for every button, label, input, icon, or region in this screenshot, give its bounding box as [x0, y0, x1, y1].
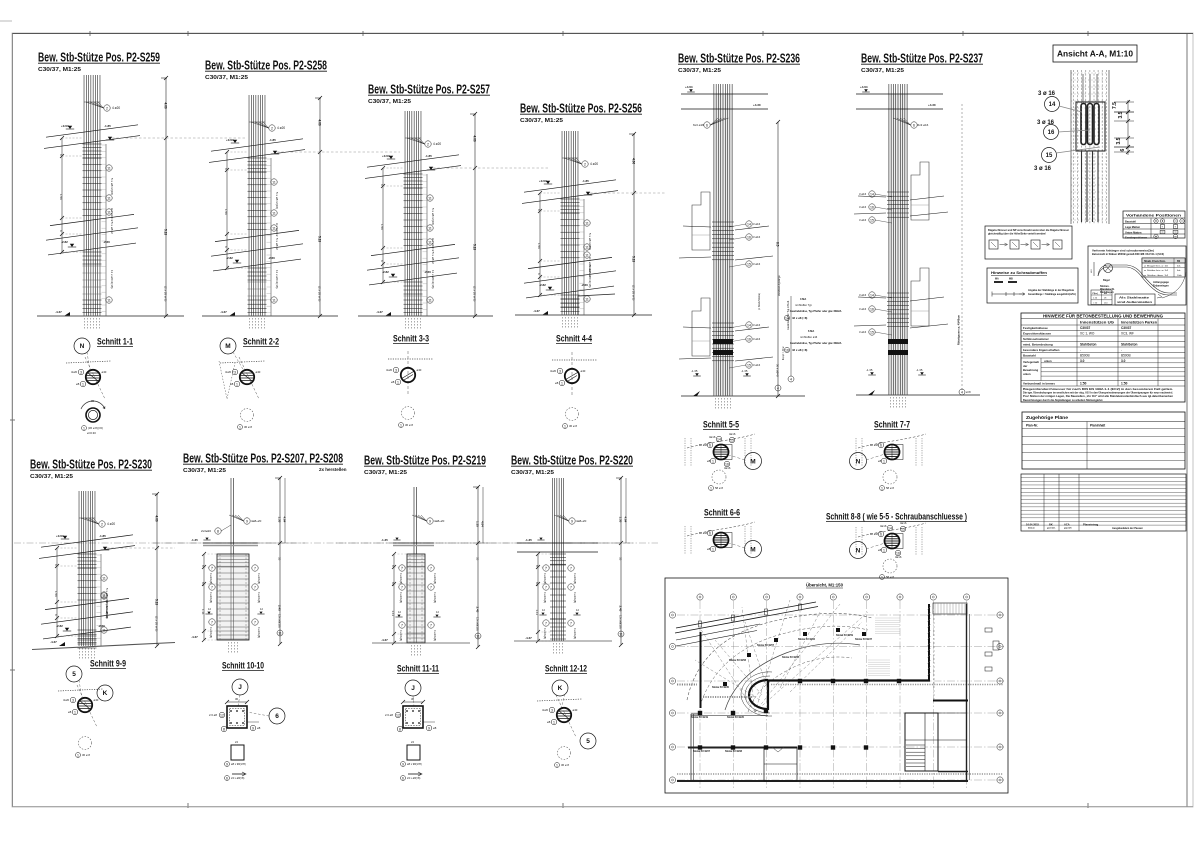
- svg-text:15: 15: [747, 262, 751, 266]
- column cross-section: [714, 533, 729, 548]
- svg-text:16: 16: [870, 205, 874, 209]
- svg-text:4 ø20: 4 ø20: [433, 142, 441, 146]
- svg-text:Stütze P2-S220: Stütze P2-S220: [727, 716, 745, 719]
- right dimension line: [474, 114, 476, 316]
- stirrup ties: [83, 265, 102, 267]
- svg-text:1: 1: [553, 720, 555, 724]
- svg-text:36 ø 8: 36 ø 8: [244, 425, 252, 429]
- left dimension chain: [539, 193, 541, 295]
- svg-text:Bew. Stb-Stütze Pos. P2-S258: Bew. Stb-Stütze Pos. P2-S258: [205, 58, 327, 73]
- rebar dashed ends: [249, 318, 251, 330]
- svg-text:15: 15: [901, 527, 905, 531]
- stirrup ties: [78, 629, 97, 631]
- svg-text:1.35: 1.35: [278, 517, 282, 523]
- rebar cluster: [713, 84, 715, 396]
- svg-text:Erdanwingen: Erdanwingen: [1153, 285, 1169, 288]
- wall dashed verticals: [684, 438, 686, 466]
- svg-text:8.1: 8.1: [535, 582, 539, 587]
- svg-text:Schnitt 2-2: Schnitt 2-2: [243, 337, 279, 348]
- svg-text:Bew. Stb-Stütze Pos. P2-S230: Bew. Stb-Stütze Pos. P2-S230: [30, 457, 152, 472]
- svg-text:3: 3: [234, 370, 236, 374]
- svg-text:4 ø10x(8): 4 ø10x(8): [399, 630, 403, 641]
- svg-text:15: 15: [747, 363, 751, 367]
- top edge columns ticks: [699, 621, 702, 627]
- svg-text:3ø16: 3ø16: [709, 435, 716, 439]
- bar label fan: [911, 122, 917, 128]
- svg-text:Bew. Stb-Stütze Pos. P2-S256: Bew. Stb-Stütze Pos. P2-S256: [520, 101, 642, 116]
- svg-text:4ø8+20: 4ø8+20: [434, 519, 445, 523]
- svg-text:9: 9: [402, 762, 404, 766]
- svg-text:1:50: 1:50: [1121, 381, 1128, 385]
- 5 bubble for 12-12: [580, 733, 596, 749]
- svg-text:B500B: B500B: [1080, 354, 1090, 358]
- svg-text:16.04.2015: 16.04.2015: [1026, 522, 1040, 526]
- svg-text:11: 11: [585, 297, 589, 301]
- stirrup ties: [83, 299, 102, 301]
- svg-text:1: 1: [564, 424, 566, 428]
- section Schnitt 7-7: [850, 420, 927, 491]
- svg-text:3ø16: 3ø16: [729, 432, 736, 436]
- svg-text:5 x ø8=2: 5 x ø8=2: [275, 238, 279, 250]
- section letter bubble: [850, 453, 867, 470]
- Ansicht A-A title box: [1053, 45, 1137, 62]
- svg-text:36 ø 8: 36 ø 8: [561, 763, 569, 767]
- bar labels: [569, 518, 575, 524]
- section letter bubble: [220, 338, 236, 354]
- svg-text:-1.35: -1.35: [191, 538, 198, 542]
- grid bubbles right: [997, 612, 1003, 618]
- svg-text:8: 8: [217, 529, 219, 533]
- stirrup ties: [78, 567, 97, 569]
- svg-text:4 ø10x(8): 4 ø10x(8): [433, 630, 437, 641]
- svg-text:ø8: ø8: [878, 548, 882, 552]
- lap ring detail (dashed): [566, 408, 579, 421]
- corner trim marks: [0, 20, 12, 22]
- svg-text:3ø16: 3ø16: [724, 466, 731, 470]
- svg-text:11: 11: [619, 632, 623, 636]
- svg-text:14: 14: [870, 192, 874, 196]
- svg-text:mind. Betondeckung: mind. Betondeckung: [1023, 343, 1053, 347]
- svg-text:Stütze P2-S256: Stütze P2-S256: [798, 638, 816, 641]
- svg-text:(36 ø 8)(=6): (36 ø 8)(=6): [88, 426, 103, 430]
- stirrup ties: [408, 566, 425, 568]
- right dimension line: [319, 98, 321, 316]
- svg-text:7: 7: [254, 585, 256, 589]
- svg-text:MA: MA: [995, 278, 999, 281]
- S236 zone2 comb: [790, 296, 792, 376]
- svg-text:4 ø10x(8): 4 ø10x(8): [257, 627, 261, 638]
- upper bars: [413, 487, 415, 554]
- svg-text:-1.35: -1.35: [691, 369, 698, 373]
- svg-text:-4.37: -4.37: [376, 310, 383, 314]
- svg-text:6x ø16: 6x ø16: [699, 443, 708, 447]
- svg-text:35: 35: [278, 557, 282, 561]
- section Schnitt 6-6: [685, 508, 762, 558]
- section cut axis: [388, 358, 433, 360]
- svg-text:Pl(m): Pl(m): [1093, 293, 1099, 295]
- svg-text:ø40: ø40: [102, 370, 107, 374]
- left dimension chain: [226, 152, 228, 268]
- svg-text:2: 2: [101, 522, 103, 526]
- bottom frame line: [12, 806, 1193, 808]
- left dimension chain: [382, 168, 384, 282]
- svg-text:42 x ø8 (=8): 42 x ø8 (=8): [792, 316, 807, 320]
- svg-text:12x ø8(18): 12x ø8(18): [476, 617, 480, 631]
- svg-text:-1.85: -1.85: [104, 124, 111, 128]
- svg-text:3: 3: [551, 708, 553, 712]
- svg-text:+4.30: +4.30: [753, 103, 761, 107]
- ground line: [32, 643, 175, 650]
- svg-text:6x ø16: 6x ø16: [870, 443, 879, 447]
- svg-text:3 ø16: 3 ø16: [753, 337, 761, 341]
- svg-text:16: 16: [870, 307, 874, 311]
- svg-text:C30/37, M1:25: C30/37, M1:25: [520, 118, 563, 124]
- svg-text:4: 4: [790, 377, 792, 381]
- svg-text:Innenstützen UG: Innenstützen UG: [1080, 321, 1114, 325]
- svg-text:8: 8: [223, 727, 225, 731]
- svg-text:-2.82: -2.82: [382, 270, 389, 274]
- svg-text:C30/37, M1:25: C30/37, M1:25: [678, 68, 721, 74]
- slab edge line: [524, 271, 616, 283]
- ramp curved wall (thick): [749, 680, 768, 709]
- svg-text:3.5: 3.5: [1118, 111, 1124, 118]
- column cross-section: [78, 698, 92, 712]
- svg-text:Gewindehülse, Typ Pfeifer oder: Gewindehülse, Typ Pfeifer oder glw. DIBt…: [790, 309, 842, 313]
- svg-text:2.45: 2.45: [476, 607, 480, 613]
- svg-text:3: 3: [72, 698, 74, 702]
- svg-text:9: 9: [571, 519, 573, 523]
- svg-text:Expositionsklassen: Expositionsklassen: [1023, 332, 1051, 336]
- svg-text:Baustahl: Baustahl: [1125, 220, 1136, 224]
- svg-text:N: N: [856, 458, 861, 465]
- slab edge line: [50, 214, 134, 225]
- stirrup ties: [408, 633, 425, 635]
- svg-text:7: 7: [254, 620, 256, 624]
- svg-text:36 ø 8: 36 ø 8: [82, 753, 90, 757]
- side position bubbles: [543, 565, 549, 571]
- svg-text:5.19: 5.19: [155, 599, 159, 605]
- svg-text:Stütze P2-S230: Stütze P2-S230: [712, 686, 730, 689]
- svg-text:unten: unten: [1023, 372, 1031, 376]
- section cut axis: [58, 689, 103, 691]
- column body: [407, 554, 425, 643]
- svg-text:4 ø10x(8): 4 ø10x(8): [573, 592, 577, 603]
- column elevation P2-S236: [678, 51, 805, 411]
- tie spacing comb: [270, 158, 272, 316]
- svg-text:Bezeichnungen durch die Abplat: Bezeichnungen durch die Abplattungen zu …: [1023, 399, 1103, 402]
- fold marks bottom: [187, 803, 189, 808]
- slab edge line: [369, 273, 457, 285]
- K bubble for 9-9: [97, 685, 113, 701]
- svg-text:N: N: [80, 343, 85, 350]
- svg-text:Schnitt 8-8 ( wie 5-5 - Schrau: Schnitt 8-8 ( wie 5-5 - Schraubanschlues…: [826, 512, 967, 523]
- svg-text:ø8 x 98(178): ø8 x 98(178): [231, 762, 246, 766]
- svg-text:4.66: 4.66: [164, 103, 168, 109]
- slab edge line: [48, 243, 136, 255]
- column elevation P2-S207/S208: [153, 451, 347, 655]
- svg-text:4 ø10x(8): 4 ø10x(8): [433, 573, 437, 584]
- svg-text:4.66: 4.66: [473, 136, 477, 142]
- svg-text:11: 11: [102, 628, 106, 632]
- svg-text:1: 1: [556, 763, 558, 767]
- svg-text:3 ø16: 3 ø16: [859, 205, 867, 209]
- wall dashed verticals: [855, 438, 857, 466]
- stirrup ties: [404, 281, 423, 283]
- svg-text:Bügel: Bügel: [1103, 279, 1110, 282]
- table: Zugehoerige Plaene: [1022, 412, 1185, 469]
- svg-text:1: 1: [236, 382, 238, 386]
- svg-text:3 ø 16: 3 ø 16: [1037, 120, 1055, 126]
- mid level triangles: [397, 615, 400, 617]
- svg-text:12: 12: [220, 713, 224, 717]
- stirrup ties: [561, 212, 580, 214]
- svg-text:3ø16: 3ø16: [895, 555, 902, 559]
- svg-text:6: 6: [913, 123, 915, 127]
- svg-text:gleichmäßig über die Höhe/Seit: gleichmäßig über die Höhe/Seite verteilt…: [988, 233, 1046, 236]
- svg-text:4x20: 4x20: [550, 369, 557, 373]
- svg-text:3 ø16: 3 ø16: [859, 293, 867, 297]
- svg-text:11: 11: [585, 253, 589, 257]
- diagonal edge (north): [676, 602, 816, 628]
- svg-text:-: -: [1121, 348, 1122, 352]
- slab edge line: [211, 139, 303, 151]
- svg-text:HINWEISE FÜR BETONBESTELLUNG U: HINWEISE FÜR BETONBESTELLUNG UND BEWEHRU…: [1043, 314, 1163, 319]
- svg-text:11: 11: [107, 196, 111, 200]
- svg-text:Verankerungslänge: Verankerungslänge: [778, 275, 781, 296]
- svg-text:11: 11: [102, 576, 106, 580]
- note box: Buegelschloesser: [985, 226, 1072, 259]
- svg-text:1.56: 1.56: [537, 243, 541, 249]
- svg-text:1: 1: [712, 459, 714, 463]
- svg-text:1: 1: [561, 381, 563, 385]
- svg-text:ø40: ø40: [581, 369, 586, 373]
- stirrup ties: [218, 566, 249, 568]
- svg-text:7: 7: [570, 585, 572, 589]
- slab edge line: [526, 286, 614, 298]
- svg-text:ø40: ø40: [573, 708, 578, 712]
- svg-text:11: 11: [107, 166, 111, 170]
- svg-text:-1.85: -1.85: [99, 534, 106, 538]
- rebar dashed ends: [890, 397, 892, 409]
- column cross-section: [714, 445, 729, 460]
- svg-text:-4.37: -4.37: [533, 309, 540, 313]
- svg-text:-2.82: -2.82: [226, 256, 233, 260]
- svg-text:Schnitt 10-10: Schnitt 10-10: [222, 661, 264, 672]
- bottom boundary wall: [677, 780, 968, 782]
- svg-text:5 x ø8=2(18): 5 x ø8=2(18): [431, 208, 435, 225]
- column elevation P2-S237: [854, 51, 983, 410]
- svg-text:Schnitt 1-1: Schnitt 1-1: [97, 337, 134, 348]
- svg-text:3 MA: 3 MA: [800, 297, 806, 301]
- svg-text:Stütze P2-S237: Stütze P2-S237: [855, 638, 873, 641]
- section Schnitt 8-8: [826, 512, 967, 580]
- step profile: [692, 298, 710, 356]
- lap ring detail (dashed): [79, 737, 92, 750]
- svg-text:4 ø10x(8): 4 ø10x(8): [209, 573, 213, 584]
- svg-text:+0.64: +0.64: [226, 138, 234, 142]
- column cross-section: [240, 370, 254, 384]
- svg-text:6: 6: [275, 713, 279, 720]
- svg-text:ø8: ø8: [878, 459, 882, 463]
- column elevation P2-S256: [515, 101, 665, 330]
- svg-text:Bew. Stb-Stütze Pos. P2-S219: Bew. Stb-Stütze Pos. P2-S219: [364, 453, 486, 468]
- svg-text:36: 36: [91, 399, 95, 403]
- svg-text:1.56: 1.56: [380, 224, 384, 230]
- svg-text:-2.60: -2.60: [103, 240, 110, 244]
- svg-text:+0.64: +0.64: [539, 179, 547, 183]
- svg-text:12: 12: [396, 713, 400, 717]
- lap circle below: [712, 470, 726, 484]
- rebar dashed ends: [405, 318, 407, 330]
- lap circle below: [883, 470, 897, 484]
- svg-text:4 ø20: 4 ø20: [590, 162, 598, 166]
- rebar cluster: [248, 95, 250, 316]
- svg-text:1: 1: [74, 710, 76, 714]
- svg-text:6: 6: [709, 531, 711, 535]
- svg-text:B500B: B500B: [1121, 354, 1131, 358]
- svg-text:3.0: 3.0: [1121, 359, 1126, 363]
- svg-text:(2 x 28 ø 8): (2 x 28 ø 8): [155, 616, 159, 631]
- column square section: [403, 706, 423, 728]
- svg-text:Schnitt 3-3: Schnitt 3-3: [393, 334, 429, 345]
- svg-text:11: 11: [107, 210, 111, 214]
- concrete face tint: [889, 94, 907, 395]
- svg-text:4 ø10x(8): 4 ø10x(8): [257, 592, 261, 603]
- svg-text:7: 7: [401, 566, 403, 570]
- svg-text:6: 6: [880, 443, 882, 447]
- svg-text:1.56: 1.56: [59, 194, 63, 200]
- svg-text:XC3, WF: XC3, WF: [1121, 332, 1134, 336]
- overview plan frame: [665, 578, 1008, 793]
- svg-text:11 x ø8=2(18): 11 x ø8=2(18): [431, 270, 435, 289]
- svg-text:3 ø 16: 3 ø 16: [1038, 91, 1056, 97]
- rebar dashed ends: [715, 398, 717, 410]
- svg-text:11: 11: [585, 221, 589, 225]
- svg-text:7: 7: [570, 566, 572, 570]
- svg-text:Betonstahl in Stäben B500B gem: Betonstahl in Stäben B500B gemäß DIN 488…: [1092, 252, 1164, 256]
- svg-text:ø8: ø8: [257, 726, 261, 730]
- svg-text:2.45: 2.45: [619, 606, 623, 612]
- svg-text:4 ø10x(8): 4 ø10x(8): [573, 628, 577, 639]
- svg-text:36 ø 8: 36 ø 8: [569, 424, 577, 428]
- svg-text:mit Muffen Typ: mit Muffen Typ: [795, 303, 812, 307]
- svg-text:BK: BK: [1049, 522, 1053, 526]
- lower block top edge: [691, 715, 768, 717]
- svg-text:ø=0.30: ø=0.30: [87, 431, 96, 435]
- svg-text:6: 6: [880, 532, 882, 536]
- svg-text:3 ø 16: 3 ø 16: [1034, 166, 1052, 172]
- svg-text:35: 35: [619, 557, 623, 561]
- svg-text:1: 1: [881, 575, 883, 579]
- top bar position label: [582, 161, 588, 167]
- step profile: [692, 192, 710, 250]
- section cut axis: [552, 359, 597, 361]
- svg-text:11 x ø8=2(18): 11 x ø8=2(18): [110, 270, 114, 289]
- svg-text:mit Muffen ø16: mit Muffen ø16: [800, 335, 818, 339]
- svg-text:Bew. Stb-Stütze Pos. P2-S257: Bew. Stb-Stütze Pos. P2-S257: [368, 82, 490, 97]
- svg-text:7.5: 7.5: [1112, 102, 1118, 109]
- top frame line: [12, 33, 1193, 35]
- axis dashed level line: [478, 542, 630, 544]
- section letter bubble: [74, 338, 90, 354]
- svg-text:1: 1: [397, 380, 399, 384]
- stirrup ties: [404, 173, 423, 175]
- top bar position label: [425, 141, 431, 147]
- rebar dashed ends: [562, 317, 564, 329]
- svg-text:11: 11: [428, 240, 432, 244]
- step profile: [911, 268, 929, 326]
- muffe symbols: [994, 281, 1003, 283]
- top slab lines: [203, 542, 258, 544]
- right inner frame line: [1186, 34, 1188, 808]
- svg-text:Pos! Stützen der nötigen Lagen: Pos! Stützen der nötigen Lagen, Die Baus…: [1023, 395, 1174, 398]
- svg-text:9: 9: [252, 726, 254, 730]
- svg-text:24 x ø8(=8): 24 x ø8(=8): [231, 776, 244, 780]
- svg-text:ø8: ø8: [391, 380, 395, 384]
- radial dashed lines: [742, 607, 755, 712]
- svg-text:Bew. Stb-Stütze Pos. P2-S236: Bew. Stb-Stütze Pos. P2-S236: [678, 51, 800, 66]
- section Schnitt 5-5: [685, 420, 762, 491]
- svg-text:Angabe der Stablänge in der Bi: Angabe der Stablänge in der Biegeliste: [1028, 289, 1075, 292]
- stirrup ties: [887, 292, 909, 294]
- ground line: [856, 394, 980, 396]
- svg-text:1: 1: [710, 486, 712, 490]
- stirrup ties: [78, 635, 97, 637]
- section letter bubble: [232, 679, 248, 695]
- svg-text:58 ø 8: 58 ø 8: [715, 486, 723, 490]
- lower long wall: [688, 747, 797, 749]
- svg-text:56 x ø8=8: 56 x ø8=8: [776, 364, 780, 377]
- slab edge line: [367, 258, 459, 270]
- stirrup ties: [404, 299, 423, 301]
- svg-text:Schnitt 11-11: Schnitt 11-11: [397, 664, 440, 675]
- svg-text:4x20: 4x20: [386, 368, 393, 372]
- svg-text:Vorhandene Positionen: Vorhandene Positionen: [1126, 214, 1181, 218]
- svg-text:C30/37: C30/37: [1080, 326, 1091, 330]
- svg-text:Stütze P2-S259: Stütze P2-S259: [836, 634, 854, 637]
- svg-text:-2.82: -2.82: [56, 624, 63, 628]
- svg-text:2: 2: [271, 126, 273, 130]
- table: Hinweise fuer Betonbestellung: [1021, 313, 1185, 402]
- side position bubbles: [209, 565, 215, 571]
- column elevation P2-S257: [358, 82, 550, 331]
- svg-text:11: 11: [272, 180, 276, 184]
- svg-text:Bew. Stb-Stütze Pos. P2-S220: Bew. Stb-Stütze Pos. P2-S220: [511, 453, 633, 468]
- columns on curve: [747, 653, 751, 657]
- slab edge line: [213, 259, 301, 271]
- svg-text:15: 15: [1046, 153, 1053, 159]
- column cross-section: [885, 445, 900, 460]
- svg-text:3 ø16: 3 ø16: [753, 323, 761, 327]
- svg-text:2: 2: [106, 106, 108, 110]
- svg-text:-2.60: -2.60: [268, 256, 275, 260]
- slab edge line: [211, 244, 303, 256]
- svg-text:4 ø10x(8): 4 ø10x(8): [257, 573, 261, 584]
- foundation step: [578, 294, 615, 315]
- stirrup ties: [248, 171, 267, 173]
- svg-text:Übersicht, M1:150: Übersicht, M1:150: [806, 582, 843, 588]
- tie bending detail: [407, 745, 420, 760]
- svg-text:5 x ø8=2: 5 x ø8=2: [110, 222, 114, 234]
- svg-text:ø8 x 98(178): ø8 x 98(178): [407, 762, 422, 766]
- svg-text:Schnitt 12-12: Schnitt 12-12: [545, 664, 587, 675]
- svg-text:11: 11: [585, 245, 589, 249]
- svg-text:14: 14: [870, 293, 874, 297]
- section Schnitt 3-3: [386, 334, 433, 428]
- svg-text:11: 11: [428, 226, 432, 230]
- svg-text:7: 7: [401, 623, 403, 627]
- svg-text:C30/37, M1:25: C30/37, M1:25: [368, 99, 411, 105]
